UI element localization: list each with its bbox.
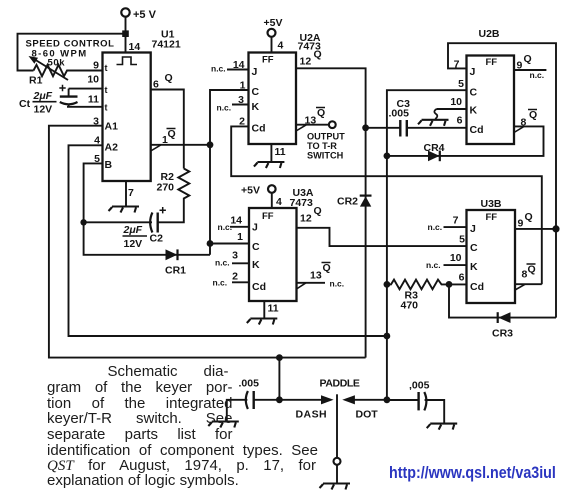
svg-text:.005: .005 (239, 378, 260, 390)
svg-text:t: t (105, 103, 108, 113)
resistor R3 470 (387, 280, 449, 312)
svg-text:CR3: CR3 (492, 328, 513, 340)
svg-text:J: J (470, 223, 476, 235)
wire R2 to C2 (158, 203, 184, 223)
svg-text:12: 12 (300, 213, 312, 225)
ground (dash bypass cap) (208, 422, 239, 428)
capacitor .005 (dash contact bypass) (227, 378, 280, 421)
svg-text:n.c.: n.c. (330, 279, 345, 289)
svg-text:10: 10 (87, 74, 99, 86)
caption line 4 (47, 410, 233, 427)
wire U2B pin 8 Qbar wedge (514, 127, 524, 133)
svg-text:J: J (470, 66, 476, 78)
svg-text:9: 9 (93, 60, 99, 72)
svg-text:Q: Q (529, 109, 537, 121)
svg-text:Q: Q (168, 128, 176, 140)
ground (U1 pin 7) (109, 181, 140, 213)
caption line 8 (47, 472, 239, 489)
svg-text:1: 1 (240, 80, 246, 92)
speed control box labels (26, 39, 115, 69)
svg-text:C2: C2 (150, 233, 164, 245)
capacitor C2 2uF 12V (123, 207, 166, 250)
wire U2A pin 13 Qbar to output terminal (296, 125, 329, 131)
node U3A clock tap (207, 240, 214, 247)
svg-text:Cd: Cd (470, 124, 484, 136)
svg-text:PADDLE: PADDLE (320, 378, 360, 390)
svg-text:Cd: Cd (470, 281, 484, 293)
wire U2A pin 2 Cd feedback from U3B Qbar (231, 126, 542, 284)
flip-flop U3B 7473 (426, 198, 536, 303)
wire U2B pin 9 Q stub (n.c.) (514, 69, 546, 71)
+5V terminal (U2A supply) (264, 17, 283, 37)
capacitor ,005 (dot contact bypass) (387, 380, 444, 424)
svg-text:50k: 50k (48, 58, 66, 69)
caption line 2 (47, 379, 233, 396)
svg-text:470: 470 (401, 300, 419, 312)
svg-text:2: 2 (232, 271, 238, 283)
ground (dot bypass cap) (427, 424, 458, 430)
svg-text:9: 9 (518, 218, 524, 230)
svg-text:n.c.: n.c. (213, 278, 228, 288)
svg-text:DASH: DASH (296, 409, 328, 421)
wire U1 pin 5 B net (down to CR1 anode wire) (84, 163, 210, 254)
paddle DASH arm with arrow (279, 395, 333, 420)
svg-text:C: C (470, 242, 478, 254)
caption line 6 (47, 442, 318, 459)
wire speed-control box loop (top and left sides) (18, 34, 126, 71)
svg-text:11: 11 (88, 94, 99, 106)
svg-text:7: 7 (128, 187, 134, 199)
wire U2A pin 3 K stub (n.c.) (232, 104, 249, 106)
wire C2 left plate to B net (84, 221, 152, 223)
wire U3B pin 6 Cd (449, 283, 467, 285)
svg-text:FF: FF (486, 212, 498, 223)
wire U3A pin 1 C from U1 Qbar node (210, 243, 249, 245)
svg-text:U2B: U2B (479, 28, 500, 40)
ground (U3A pin 11) (247, 301, 278, 325)
resistor R1 (speed control pot) (29, 56, 70, 87)
node DASH contact junction (276, 396, 283, 403)
svg-text:12V: 12V (34, 104, 53, 116)
flip-flop U3A 7473 (213, 187, 345, 315)
wire Ct to U1 pin 11 (67, 106, 103, 108)
svg-text:A2: A2 (105, 142, 119, 154)
wire U3A pin 3 K stub (n.c.) (232, 262, 249, 264)
svg-text:6: 6 (459, 272, 465, 284)
svg-text:Q: Q (525, 211, 533, 223)
svg-text:2μF: 2μF (123, 224, 143, 236)
pulse glyph inside U1 (117, 57, 138, 65)
svg-text:TO T-R: TO T-R (307, 141, 337, 151)
resistor R2 270 (157, 169, 190, 203)
wire U3B pin 9 Q to far right vertical (515, 228, 556, 230)
node DOT line junction (384, 333, 391, 340)
svg-text:10: 10 (450, 252, 462, 264)
svg-text:74121: 74121 (152, 39, 181, 51)
paddle lever and common terminal (320, 378, 360, 484)
node U1 Qbar / U2A clock junction (207, 141, 214, 148)
svg-text:FF: FF (262, 55, 274, 66)
svg-text:Q: Q (528, 264, 536, 276)
wire U2B pin 7 J from U3B Q (top feedback, far right vertical) (448, 43, 556, 317)
node junction at speed-control box top (122, 30, 129, 37)
caption line 1 (108, 363, 229, 380)
flip-flop U2A 7473 (211, 32, 325, 158)
svg-text:CR2: CR2 (337, 196, 358, 208)
svg-text:OUTPUT: OUTPUT (307, 132, 345, 142)
svg-text:n.c.: n.c. (530, 70, 545, 80)
svg-text:C: C (252, 86, 260, 98)
svg-text:n.c.: n.c. (426, 260, 441, 270)
flip-flop U2B 7473 (450, 28, 544, 144)
wire U3B pin 7 J stub (n.c.) (444, 226, 467, 228)
node DASH line tap (276, 354, 283, 361)
svg-text:K: K (252, 101, 260, 113)
diode CR1 (165, 249, 186, 276)
svg-text:,005: ,005 (409, 380, 430, 392)
svg-text:5: 5 (458, 78, 464, 90)
node U3B Q / far right vertical (552, 225, 559, 232)
ground (paddle common) (320, 484, 351, 490)
svg-text:K: K (470, 261, 478, 273)
node R3 / U3B Cd junction (446, 281, 453, 288)
wire vertical U1 Qbar to U2A pin 1 and down to CR1 (210, 90, 249, 255)
wire U1 pin 3 A1 net (down-left, long bottom run to CR2 anode) (49, 126, 366, 358)
svg-text:7473: 7473 (290, 197, 314, 209)
wire U2B pin 10 K to ground (418, 109, 467, 126)
node C3 tap on U2A Q (362, 124, 369, 131)
one-shot U1 74121 (87, 29, 181, 200)
svg-text:10: 10 (450, 96, 462, 108)
svg-text:Q: Q (317, 107, 325, 119)
wire U3B pin 8 Qbar wedge (515, 284, 542, 290)
svg-text:Cd: Cd (252, 123, 266, 135)
+5V terminal (U3A supply) (241, 185, 276, 197)
caption line 5 (47, 426, 233, 443)
svg-text:270: 270 (157, 182, 175, 194)
svg-text:5: 5 (459, 234, 465, 246)
wire U1 pin 4 A2 net (down, bottom run to paddle DOT line) (69, 145, 388, 336)
svg-text:C: C (470, 87, 478, 99)
svg-text:Q: Q (323, 262, 331, 274)
diode CR4 (387, 126, 544, 161)
svg-text:14: 14 (129, 41, 141, 53)
wire U3A pin 2 Cd stub (n.c.) (232, 281, 249, 283)
svg-text:K: K (470, 105, 478, 117)
svg-text:11: 11 (268, 303, 279, 315)
svg-text:n.c.: n.c. (217, 103, 232, 113)
svg-text:DOT: DOT (356, 409, 379, 421)
svg-text:t: t (105, 85, 108, 95)
svg-text:CR4: CR4 (424, 142, 445, 154)
diode CR2 (337, 196, 372, 208)
wire U1 pin 1 Qbar output (151, 145, 210, 151)
wire U3B pin 10 K stub (n.c.) (444, 264, 467, 266)
svg-text:Cd: Cd (252, 281, 266, 293)
svg-text:3: 3 (232, 250, 238, 262)
node CR4 tap on DOT net (384, 153, 391, 160)
capacitor C3 .005 (366, 98, 467, 137)
svg-text:FF: FF (486, 57, 498, 68)
svg-text:Q: Q (314, 205, 322, 217)
svg-text:CR1: CR1 (165, 265, 186, 277)
svg-text:2μF: 2μF (33, 90, 53, 102)
wire +5V to U2A pin 4 (271, 37, 273, 53)
wire +5V down to U1 pin 14 (125, 17, 127, 53)
svg-text:U3B: U3B (481, 198, 502, 210)
svg-text:C: C (252, 241, 260, 253)
wire Ct to U1 pin 10 (69, 88, 103, 90)
svg-text:A1: A1 (105, 121, 119, 133)
wire U2A pin 14 J stub (n.c.) (227, 69, 249, 71)
svg-text:+5 V: +5 V (133, 9, 157, 21)
svg-text:Q: Q (524, 53, 532, 65)
svg-text:1: 1 (237, 231, 243, 243)
svg-text:6: 6 (457, 115, 463, 127)
svg-text:12V: 12V (124, 238, 143, 250)
URL watermark (389, 463, 556, 483)
svg-text:n.c.: n.c. (428, 222, 443, 232)
svg-text:Q: Q (165, 72, 173, 84)
svg-text:n.c.: n.c. (215, 258, 230, 268)
wire U3A pin 14 J stub (n.c.) (230, 226, 249, 228)
output terminal (to T-R switch) (307, 121, 345, 160)
+5V terminal (U1 supply) (121, 8, 156, 21)
capacitor Ct (timing) (19, 85, 78, 116)
svg-text:.005: .005 (389, 108, 410, 120)
svg-text:SWITCH: SWITCH (307, 151, 344, 161)
svg-text:K: K (252, 259, 260, 271)
wire R1 to U1 pin 9 (70, 70, 103, 72)
caption line 3 (47, 395, 233, 412)
wire U3A pin 13 Qbar stub (n.c.) (297, 283, 326, 289)
wire U1 pin 6 Q to R2 (151, 90, 184, 169)
node B/C2 junction (80, 219, 86, 225)
svg-text:B: B (105, 159, 113, 171)
svg-text:n.c.: n.c. (218, 222, 233, 232)
svg-text:n.c.: n.c. (211, 64, 226, 74)
svg-text:FF: FF (262, 211, 274, 222)
caption line 7 (47, 457, 316, 475)
svg-text:t: t (105, 63, 108, 73)
wire U2A pin 12 Q down to DASH line (through CR2) (296, 68, 366, 357)
diode CR3 (449, 284, 556, 339)
wire +5V to U3A pin 4 (271, 193, 273, 208)
svg-text:R1: R1 (29, 75, 43, 87)
wire DASH drop to paddle dash contact (278, 358, 280, 400)
svg-text:4: 4 (276, 196, 282, 208)
wire U3A pin 12 Q to U3B pin 5 C (297, 228, 467, 246)
svg-text:4: 4 (278, 40, 284, 52)
svg-text:7: 7 (453, 215, 459, 227)
paddle DOT arm with arrow (342, 395, 387, 420)
svg-text:J: J (252, 66, 258, 78)
wire paddle DOT net vertical (to U2B pin 5 C) (387, 90, 467, 400)
svg-text:J: J (252, 222, 258, 234)
svg-text:12: 12 (300, 56, 312, 68)
node DOT contact junction (384, 396, 391, 403)
svg-text:Q: Q (314, 49, 322, 61)
ground (U2A pin 11) (254, 144, 285, 168)
node R3 tap on DOT net (384, 281, 391, 288)
svg-text:Ct: Ct (19, 98, 31, 110)
svg-text:+5V: +5V (264, 17, 283, 29)
svg-text:11: 11 (275, 146, 286, 158)
svg-text:13: 13 (310, 270, 322, 282)
svg-text:+5V: +5V (241, 185, 260, 197)
